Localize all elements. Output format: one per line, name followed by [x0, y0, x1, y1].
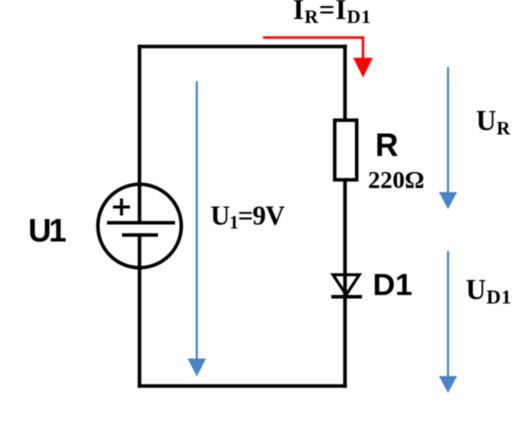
svg-text:U1: U1	[28, 213, 66, 249]
svg-text:UD1: UD1	[466, 275, 512, 309]
wire left upper	[138, 45, 142, 224]
diode D1	[331, 275, 362, 297]
voltage arrow UD1 (blue right lower)	[439, 251, 457, 393]
wire bottom	[138, 384, 347, 388]
resistor R	[335, 120, 357, 180]
svg-text:R: R	[375, 127, 398, 163]
svg-text:IR=ID1: IR=ID1	[293, 0, 371, 28]
wire right	[343, 45, 347, 388]
current arrow IR=ID1 (red)	[263, 38, 373, 78]
wire left lower	[138, 235, 142, 388]
svg-text:U1=9V: U1=9V	[211, 201, 286, 234]
voltage source U1	[98, 184, 181, 267]
svg-text:D1: D1	[373, 267, 413, 302]
svg-text:220Ω: 220Ω	[368, 167, 424, 194]
svg-text:UR: UR	[476, 106, 511, 140]
wire top	[138, 45, 347, 49]
voltage arrow UR (blue right upper)	[439, 67, 457, 209]
voltage arrow U1 (blue center)	[188, 81, 206, 376]
